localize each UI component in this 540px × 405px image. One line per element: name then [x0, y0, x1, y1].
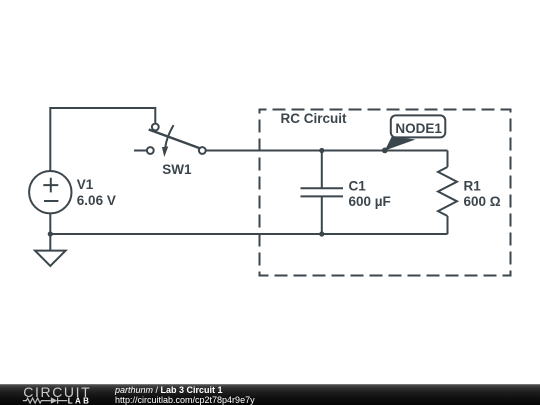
svg-text:C1: C1: [349, 178, 367, 193]
svg-text:SW1: SW1: [162, 162, 192, 177]
svg-text:6.06 V: 6.06 V: [77, 193, 116, 208]
svg-text:NODE1: NODE1: [395, 121, 442, 136]
svg-text:600 Ω: 600 Ω: [464, 194, 501, 209]
svg-text:600 µF: 600 µF: [349, 194, 391, 209]
svg-text:R1: R1: [464, 178, 482, 193]
svg-text:LAB: LAB: [68, 396, 92, 405]
svg-text:V1: V1: [77, 177, 94, 192]
svg-text:RC Circuit: RC Circuit: [281, 111, 348, 126]
